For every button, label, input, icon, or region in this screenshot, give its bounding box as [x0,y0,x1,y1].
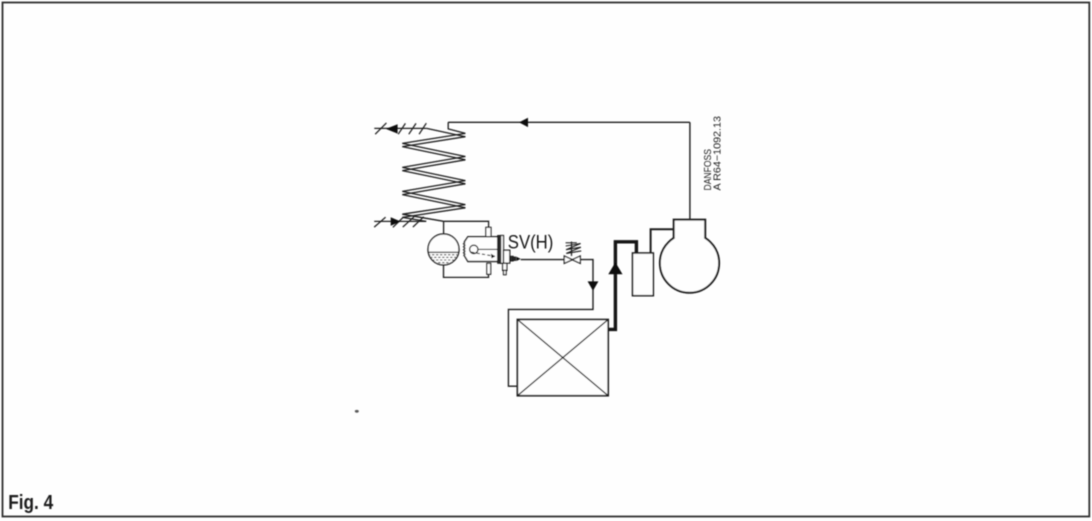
wire from shut-off valve to condenser [508,260,593,387]
float vessel liquid hatch [426,255,459,265]
evaporator coil upper outline [402,122,465,221]
valve SV(H) serrated left edge [463,242,465,256]
shut-off valve spring [566,242,577,244]
wire suction drop to compressor [689,122,691,219]
valve SV(H) pilot orifice circle [470,245,478,253]
flow arrow right on bottom wall hatch [391,217,401,226]
oil separator vessel [633,253,654,296]
flow arrow up on hot gas line [608,262,622,274]
float vessel liquid level line [428,251,458,253]
wire junction to float vessel top [443,221,445,234]
wire separator to compressor [651,229,674,253]
compressor shell [660,234,719,293]
shut-off valve spring stem [571,242,573,256]
flow arrow down on condenser inlet [588,281,599,290]
valve SV(H) flange bar filled [498,236,501,264]
valve SV(H) lever arrow [491,254,495,259]
compressor head [674,220,706,239]
valve SV(H) dashed lever [471,252,495,256]
condenser heat exchanger [517,320,608,396]
wire float vessel bottom equalising line [444,265,489,278]
flow arrow left on top wall hatch [386,124,398,133]
wall hatch bottom [374,217,426,228]
valve SV(H) right block [504,250,510,263]
wire suction line top [448,121,690,123]
evaporator coil lower outline [402,128,465,221]
valve SV(H) outlet fitting [510,256,513,261]
shut-off valve body [564,256,572,264]
valve SV(H) body [464,237,497,262]
valve SV(H) top neck [486,227,491,236]
wire hot gas line thick [608,242,636,330]
wire liquid line to shut-off valve [521,259,565,261]
valve SV(H) bottom stem [503,263,507,270]
svg-text:Fig. 4: Fig. 4 [8,492,54,514]
label DANFOSS [703,116,724,191]
wall hatch top [374,123,426,134]
svg-text:SV(H): SV(H) [508,231,554,253]
valve SV(H) bottom neck [487,263,491,274]
svg-text:A R64−1092.13: A R64−1092.13 [712,116,723,191]
flow arrow left on suction line [519,118,528,127]
float vessel shell [428,234,459,265]
stray ink speck [355,410,359,413]
valve SV(H) outlet arrow [516,257,520,261]
wire junction to valve top neck [444,221,489,227]
valve SV(H) flange bar outline [501,236,504,264]
valve SV(H) stem line [478,248,498,250]
